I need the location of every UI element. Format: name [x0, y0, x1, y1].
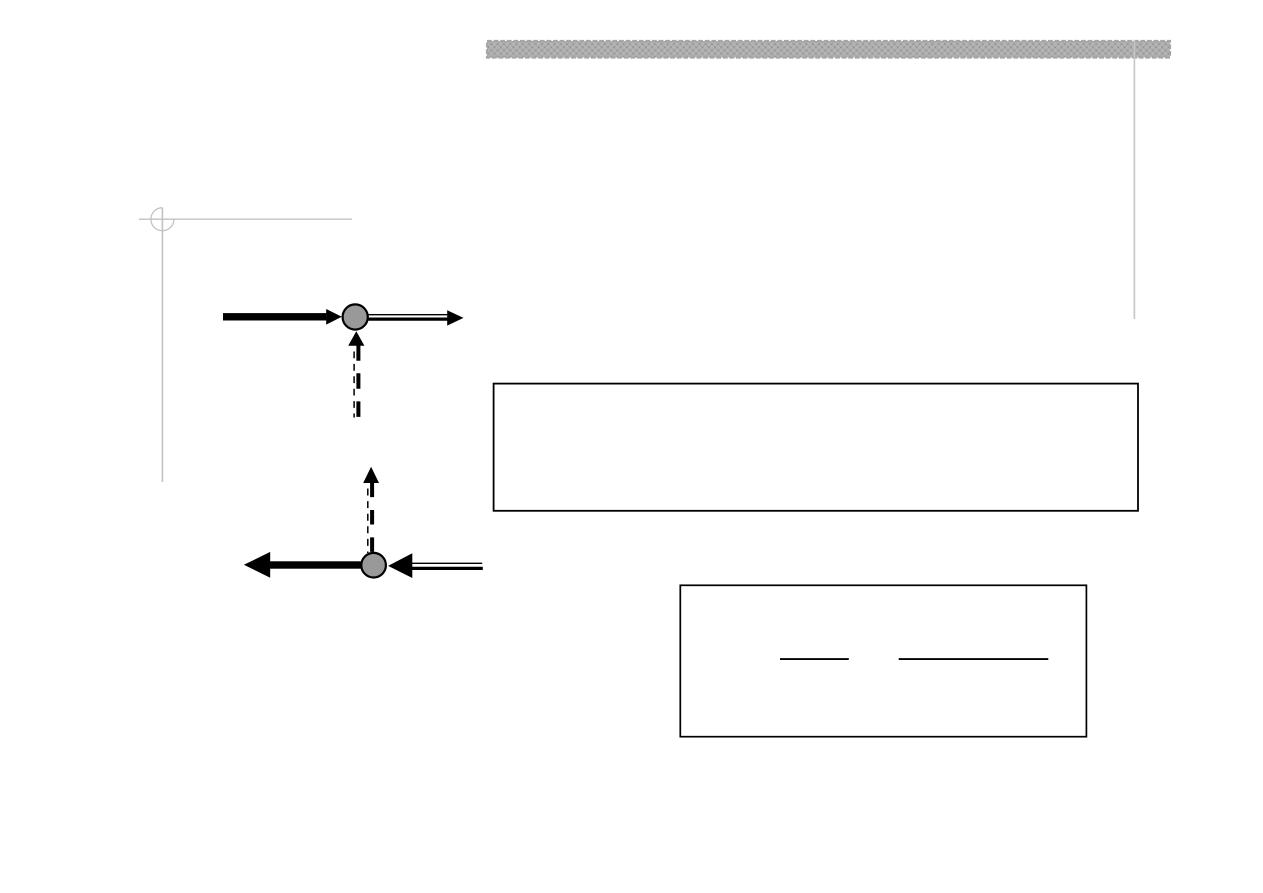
node 2: thick outflow arrow (left, pointing left): [244, 552, 362, 578]
caption box 2 (with blank lines): [680, 585, 1086, 736]
node 1: thick inflow arrow (left, pointing right): [223, 309, 342, 325]
blank line B inside box 2: [899, 658, 1049, 660]
node 1: dashed double-line arrow (below, pointing up into node): [348, 331, 364, 417]
margin guide vertical line: [161, 208, 163, 482]
text-column guide vertical line: [1133, 40, 1135, 319]
hatched title placeholder bar: [487, 41, 1170, 58]
node 2: dashed double-line arrow (above, pointing up away): [363, 467, 379, 553]
node 1: pool circle: [343, 304, 368, 329]
node 2: pool circle: [361, 553, 386, 578]
blank line A inside box 2: [780, 658, 849, 660]
node 1: double-line outflow arrow (right, pointing right): [366, 310, 464, 325]
caption box 1 (empty): [494, 384, 1138, 511]
margin guide horizontal line: [139, 218, 352, 220]
node 2: double-line inflow arrow (right, pointing left): [388, 553, 483, 578]
margin crop/registration mark arc: [151, 208, 174, 231]
